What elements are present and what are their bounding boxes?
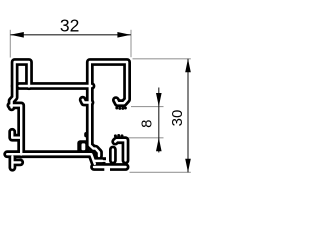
svg-text:8: 8: [139, 120, 156, 128]
svg-text:32: 32: [60, 16, 79, 36]
svg-text:30: 30: [169, 110, 186, 127]
